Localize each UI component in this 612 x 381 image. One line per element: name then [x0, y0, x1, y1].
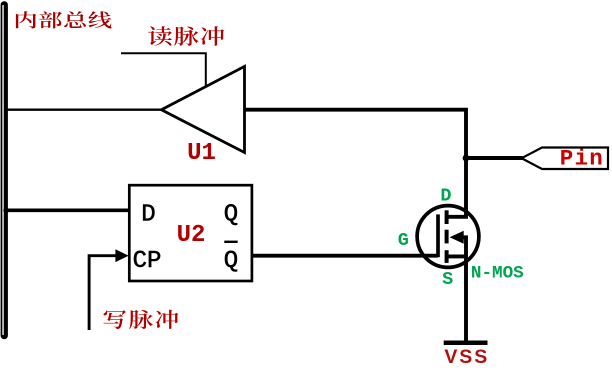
wire: read-pulse enable line into U1	[121, 53, 206, 88]
svg-text:CP: CP	[133, 248, 162, 275]
wire: body to source	[461, 235, 466, 342]
svg-text:N-MOS: N-MOS	[471, 263, 524, 283]
flip-flop U2 box	[129, 185, 252, 281]
svg-text:U1: U1	[187, 140, 216, 167]
svg-text:U2: U2	[177, 222, 206, 249]
label 读脉冲 (read pulse)	[148, 26, 224, 46]
channel segment (body)	[445, 230, 449, 244]
node: junction on bus at D wire	[3, 208, 9, 214]
channel segment (drain side)	[445, 210, 449, 224]
arrowhead into CP	[115, 249, 128, 262]
svg-text:G: G	[398, 230, 409, 251]
Pin flag symbol	[522, 148, 608, 170]
svg-text:S: S	[442, 269, 453, 290]
wire: bus to D input	[6, 208, 129, 212]
svg-text:D: D	[141, 202, 155, 229]
wire: bus to U1 output tip	[7, 108, 163, 110]
transistor Q1 N-MOS: body circle	[417, 206, 479, 268]
gate bar	[436, 214, 440, 257]
wire: Q-bar output to MOSFET gate	[252, 254, 438, 258]
svg-text:Q: Q	[224, 202, 238, 229]
node: junction dot at Pin branch	[463, 155, 470, 162]
wire: U1 input from pin node (down to MOSFET drain)	[245, 108, 468, 217]
svg-text:Pin: Pin	[560, 146, 604, 172]
svg-text:VSS: VSS	[444, 346, 489, 368]
label 写脉冲 (write pulse)	[104, 310, 179, 329]
overline of Q-bar	[224, 241, 237, 243]
svg-text:D: D	[440, 186, 451, 207]
internal bus bar (内部总线 bus)	[1, 1, 8, 339]
wire: write-pulse line into CP	[89, 256, 116, 330]
source contact	[447, 254, 466, 258]
ground bar VSS	[444, 341, 488, 346]
svg-text:Q: Q	[224, 248, 238, 275]
wire: node to Pin flag	[466, 156, 523, 160]
label 内部总线 (internal bus)	[16, 11, 112, 28]
body arrow (pointing to gate)	[450, 231, 464, 244]
op-amp/buffer U1 (tri-state read buffer)	[161, 66, 244, 152]
channel segment (source side)	[445, 250, 449, 263]
